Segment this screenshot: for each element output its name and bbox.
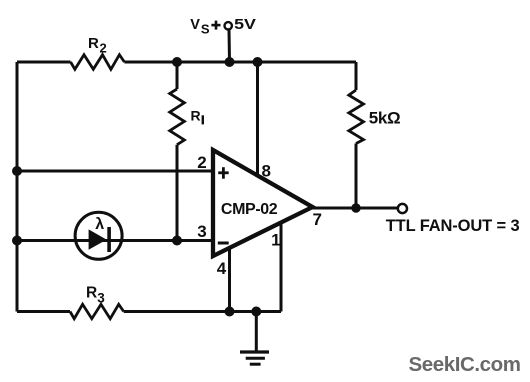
svg-text:R: R [191, 107, 201, 123]
node: R1 / pin 3 line junction [172, 236, 182, 246]
wire: bottom rail left segment [17, 310, 70, 313]
svg-text:5V: 5V [234, 17, 256, 33]
wire: inverting input line (pin 3) [17, 239, 213, 242]
photodiode D1 cathode bar [107, 227, 111, 252]
node: bottom rail / pin 4 junction [225, 307, 235, 317]
svg-text:SeekIC.com: SeekIC.com [409, 353, 522, 376]
svg-text:R: R [88, 35, 99, 52]
wire: pin 8 drop from top rail [256, 62, 259, 176]
resistor R1 [170, 89, 185, 145]
wire: supply drop from Vs terminal to top rail [228, 30, 232, 62]
svg-text:R: R [86, 284, 97, 301]
wire: R1 top lead [176, 62, 179, 89]
svg-text:S: S [201, 21, 210, 36]
svg-text:8: 8 [261, 162, 270, 181]
wire: top rail left segment [17, 61, 71, 64]
ground stem [255, 312, 258, 352]
ground bar 3 [250, 363, 261, 366]
node: top rail / supply junction [225, 57, 235, 67]
svg-text:λ: λ [95, 216, 104, 233]
svg-text:7: 7 [312, 210, 321, 229]
wire: left rail [16, 62, 19, 312]
node: left rail / pin 3 line junction [12, 236, 22, 246]
svg-text:2: 2 [197, 153, 206, 172]
svg-text:3: 3 [197, 222, 206, 241]
node: left rail / pin 2 line junction [12, 166, 22, 176]
wire: non-inverting input line (pin 2) [17, 170, 213, 173]
wire: pin 4 drop [228, 248, 231, 312]
node: output / 5k junction [351, 203, 360, 212]
wire: pin 1 drop [280, 223, 283, 312]
svg-text:1: 1 [271, 230, 280, 249]
photodiode D1 anode triangle [89, 229, 107, 249]
wire: bottom rail right segment [124, 310, 281, 313]
terminal: Vs +5V open circle [225, 22, 232, 29]
wire: output from pin 7 to TTL terminal [313, 207, 399, 210]
svg-text:V: V [190, 17, 200, 33]
resistor R3 [70, 304, 124, 318]
wire: right rail top (5k top lead) [355, 62, 358, 90]
node: top rail / pin 8 junction [253, 57, 263, 67]
svg-text:CMP-02: CMP-02 [221, 201, 278, 218]
label + of supply [211, 21, 220, 30]
op-amp U1 CMP-02 body [213, 150, 313, 256]
svg-text:5kΩ: 5kΩ [369, 109, 401, 128]
wire: R1 bottom lead down to inverting line [176, 145, 179, 241]
resistor R2 [71, 55, 125, 70]
svg-text:3: 3 [97, 290, 105, 305]
resistor 5k [349, 90, 364, 144]
svg-text:TTL FAN-OUT = 3: TTL FAN-OUT = 3 [386, 217, 520, 235]
node: top rail / R1 junction [172, 57, 182, 67]
node: bottom rail / ground junction [251, 307, 261, 317]
ground bar 2 [246, 357, 265, 360]
ground bar 1 [240, 350, 269, 353]
op-amp - input marker [218, 242, 229, 245]
terminal: TTL output open circle [398, 204, 407, 213]
op-amp + input marker [218, 167, 229, 179]
wire: 5k bottom lead to output node [355, 144, 358, 209]
photodiode D1 circle [75, 212, 122, 259]
svg-text:4: 4 [217, 259, 227, 278]
svg-text:2: 2 [100, 40, 107, 55]
wire: diode axis through photodiode [75, 239, 122, 242]
wire: top rail right segment [124, 61, 356, 64]
